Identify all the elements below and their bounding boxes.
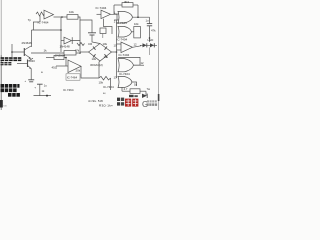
wire horizontal y30 <box>32 29 62 31</box>
wire U8 input <box>56 65 68 67</box>
svg-text:1N4148: 1N4148 <box>60 45 71 49</box>
svg-text:10k: 10k <box>69 10 74 14</box>
component box under U8 <box>66 74 80 80</box>
resistor zigzag 10k bottom <box>99 76 111 80</box>
resistor R 10k <box>67 15 78 20</box>
svg-text:1u: 1u <box>44 83 47 87</box>
diode D2 <box>142 94 147 98</box>
watermark big red char 2 <box>132 99 138 107</box>
wire diode cathode <box>72 41 80 52</box>
wire cap to bridge top <box>92 35 100 43</box>
wire U4 output to resistor <box>132 31 135 33</box>
svg-text:IC-7464: IC-7464 <box>67 76 78 80</box>
wire below LED <box>149 47 151 55</box>
wire stepped to node <box>78 17 92 33</box>
resistor R 3K3 feedback <box>114 4 122 6</box>
svg-text:47k: 47k <box>151 29 156 33</box>
gate U3 <box>118 11 133 23</box>
wire left bus x31 <box>31 30 33 47</box>
transistor Q1 <box>23 48 25 56</box>
wire corner down <box>32 22 34 30</box>
svg-text:12: 12 <box>141 61 144 65</box>
wire U3 output <box>133 16 150 18</box>
component box B1 <box>100 28 106 34</box>
text block B line1 <box>1 84 20 88</box>
wire U6 output <box>134 64 145 66</box>
svg-text:4×9k·5W: 4×9k·5W <box>88 99 103 103</box>
watermark logo dark chars column <box>117 94 159 109</box>
svg-text:IC-7404: IC-7404 <box>116 21 127 25</box>
svg-text:10k: 10k <box>134 22 139 26</box>
wire U5 inputs <box>117 43 122 45</box>
resistor row bottom right <box>121 87 123 91</box>
border right <box>157 0 159 110</box>
wire bridge right to bus <box>112 51 117 53</box>
svg-text:13: 13 <box>114 76 118 80</box>
feedback wire U6 <box>118 57 140 65</box>
svg-text:3K3: 3K3 <box>124 0 129 4</box>
svg-text:IC-7404: IC-7404 <box>119 72 130 76</box>
op-amp U5 <box>121 42 133 53</box>
border left <box>0 0 2 55</box>
gate U7 <box>118 76 132 87</box>
svg-text:R3Ω·1k×: R3Ω·1k× <box>99 104 113 108</box>
svg-text:10k: 10k <box>99 80 104 84</box>
svg-text:CR: CR <box>88 42 92 46</box>
capacitor C2 bars <box>28 79 34 81</box>
svg-text:10k: 10k <box>103 42 108 46</box>
node dot <box>11 51 13 53</box>
gate U6 <box>118 59 134 72</box>
text block B line3 <box>8 93 20 97</box>
text block A line1 <box>1 57 22 61</box>
wire U2 bias <box>104 19 113 34</box>
resistor row R 1k <box>31 52 64 54</box>
svg-text:IC-7464: IC-7464 <box>38 21 49 25</box>
wire down to diode <box>145 91 147 96</box>
wire U7 output <box>132 82 137 86</box>
text block B line2 <box>1 88 17 92</box>
diode D1 <box>61 40 64 42</box>
wire U1 output <box>54 16 68 18</box>
op-amp U1 <box>44 10 54 19</box>
op-amp U8 <box>68 60 81 73</box>
diode bridge CR <box>89 44 112 62</box>
wire bridge bottom <box>99 61 100 78</box>
svg-text:Tp: Tp <box>28 18 32 22</box>
svg-text:IC-7404: IC-7404 <box>117 38 128 42</box>
node junction dot <box>61 16 63 18</box>
resistor zigzag 47k <box>77 43 85 46</box>
svg-text:IC.7464: IC.7464 <box>63 88 74 92</box>
watermark tiny gray text row1 <box>147 100 149 102</box>
left bottom dark blob <box>0 100 3 108</box>
svg-text:4.7: 4.7 <box>124 87 128 91</box>
resistor box vertical <box>134 27 141 38</box>
transistor Q2 <box>27 60 29 68</box>
op-amp U2 <box>101 10 111 18</box>
border left lower darker <box>0 55 2 110</box>
svg-text:IC-7404: IC-7404 <box>103 85 114 89</box>
watermark big red char 1 <box>125 99 131 107</box>
svg-text:3DG6×(2): 3DG6×(2) <box>90 63 103 67</box>
svg-text:+: + <box>34 86 36 90</box>
wire U1 input left <box>33 21 40 23</box>
svg-text:10k: 10k <box>104 55 109 59</box>
capacitor C bars <box>88 32 96 34</box>
LED diodes row <box>140 44 157 46</box>
wire down to node a <box>110 78 112 90</box>
svg-text:20k: 20k <box>76 69 81 73</box>
wire vertical x80 <box>79 20 81 41</box>
text block A line2 <box>1 62 12 65</box>
wire U2 input stub <box>97 13 102 15</box>
gate U4 <box>118 26 132 37</box>
right border dark accent <box>158 94 160 101</box>
svg-text:IC.7404: IC.7404 <box>96 6 107 10</box>
svg-text:12: 12 <box>134 43 138 47</box>
text texture slits <box>1 59 22 95</box>
svg-text:IC-7404: IC-7404 <box>119 53 130 57</box>
wire left bus x12 <box>11 44 13 57</box>
wire vertical bus x61 <box>60 18 62 53</box>
wire U8 output down 20k <box>81 66 99 78</box>
wire U5 output to LEDs <box>133 46 142 48</box>
vertical bus x116 <box>116 20 118 78</box>
svg-text:2N3646: 2N3646 <box>22 41 33 45</box>
resistor input zigzag of U1 <box>36 12 44 16</box>
watermark top small dark marks <box>129 95 134 97</box>
watermark tiny gray text row2 <box>147 103 149 106</box>
wire B1 to bridge <box>102 34 104 39</box>
wire to bridge left <box>80 51 89 53</box>
svg-text:1u: 1u <box>146 19 150 23</box>
wire Q2 emitter down <box>30 69 32 80</box>
svg-text:10k: 10k <box>92 57 97 61</box>
wire vertical from zigzag <box>39 16 41 23</box>
svg-text:45Ω: 45Ω <box>52 65 58 69</box>
svg-text:LED: LED <box>148 38 155 42</box>
wire U2 output <box>111 14 118 20</box>
node dot <box>60 29 62 31</box>
wire row y57 with resistor <box>46 57 54 59</box>
wire vertical to U8 <box>65 58 67 66</box>
svg-text:3646: 3646 <box>29 59 35 63</box>
wire U3 inputs <box>114 13 119 15</box>
